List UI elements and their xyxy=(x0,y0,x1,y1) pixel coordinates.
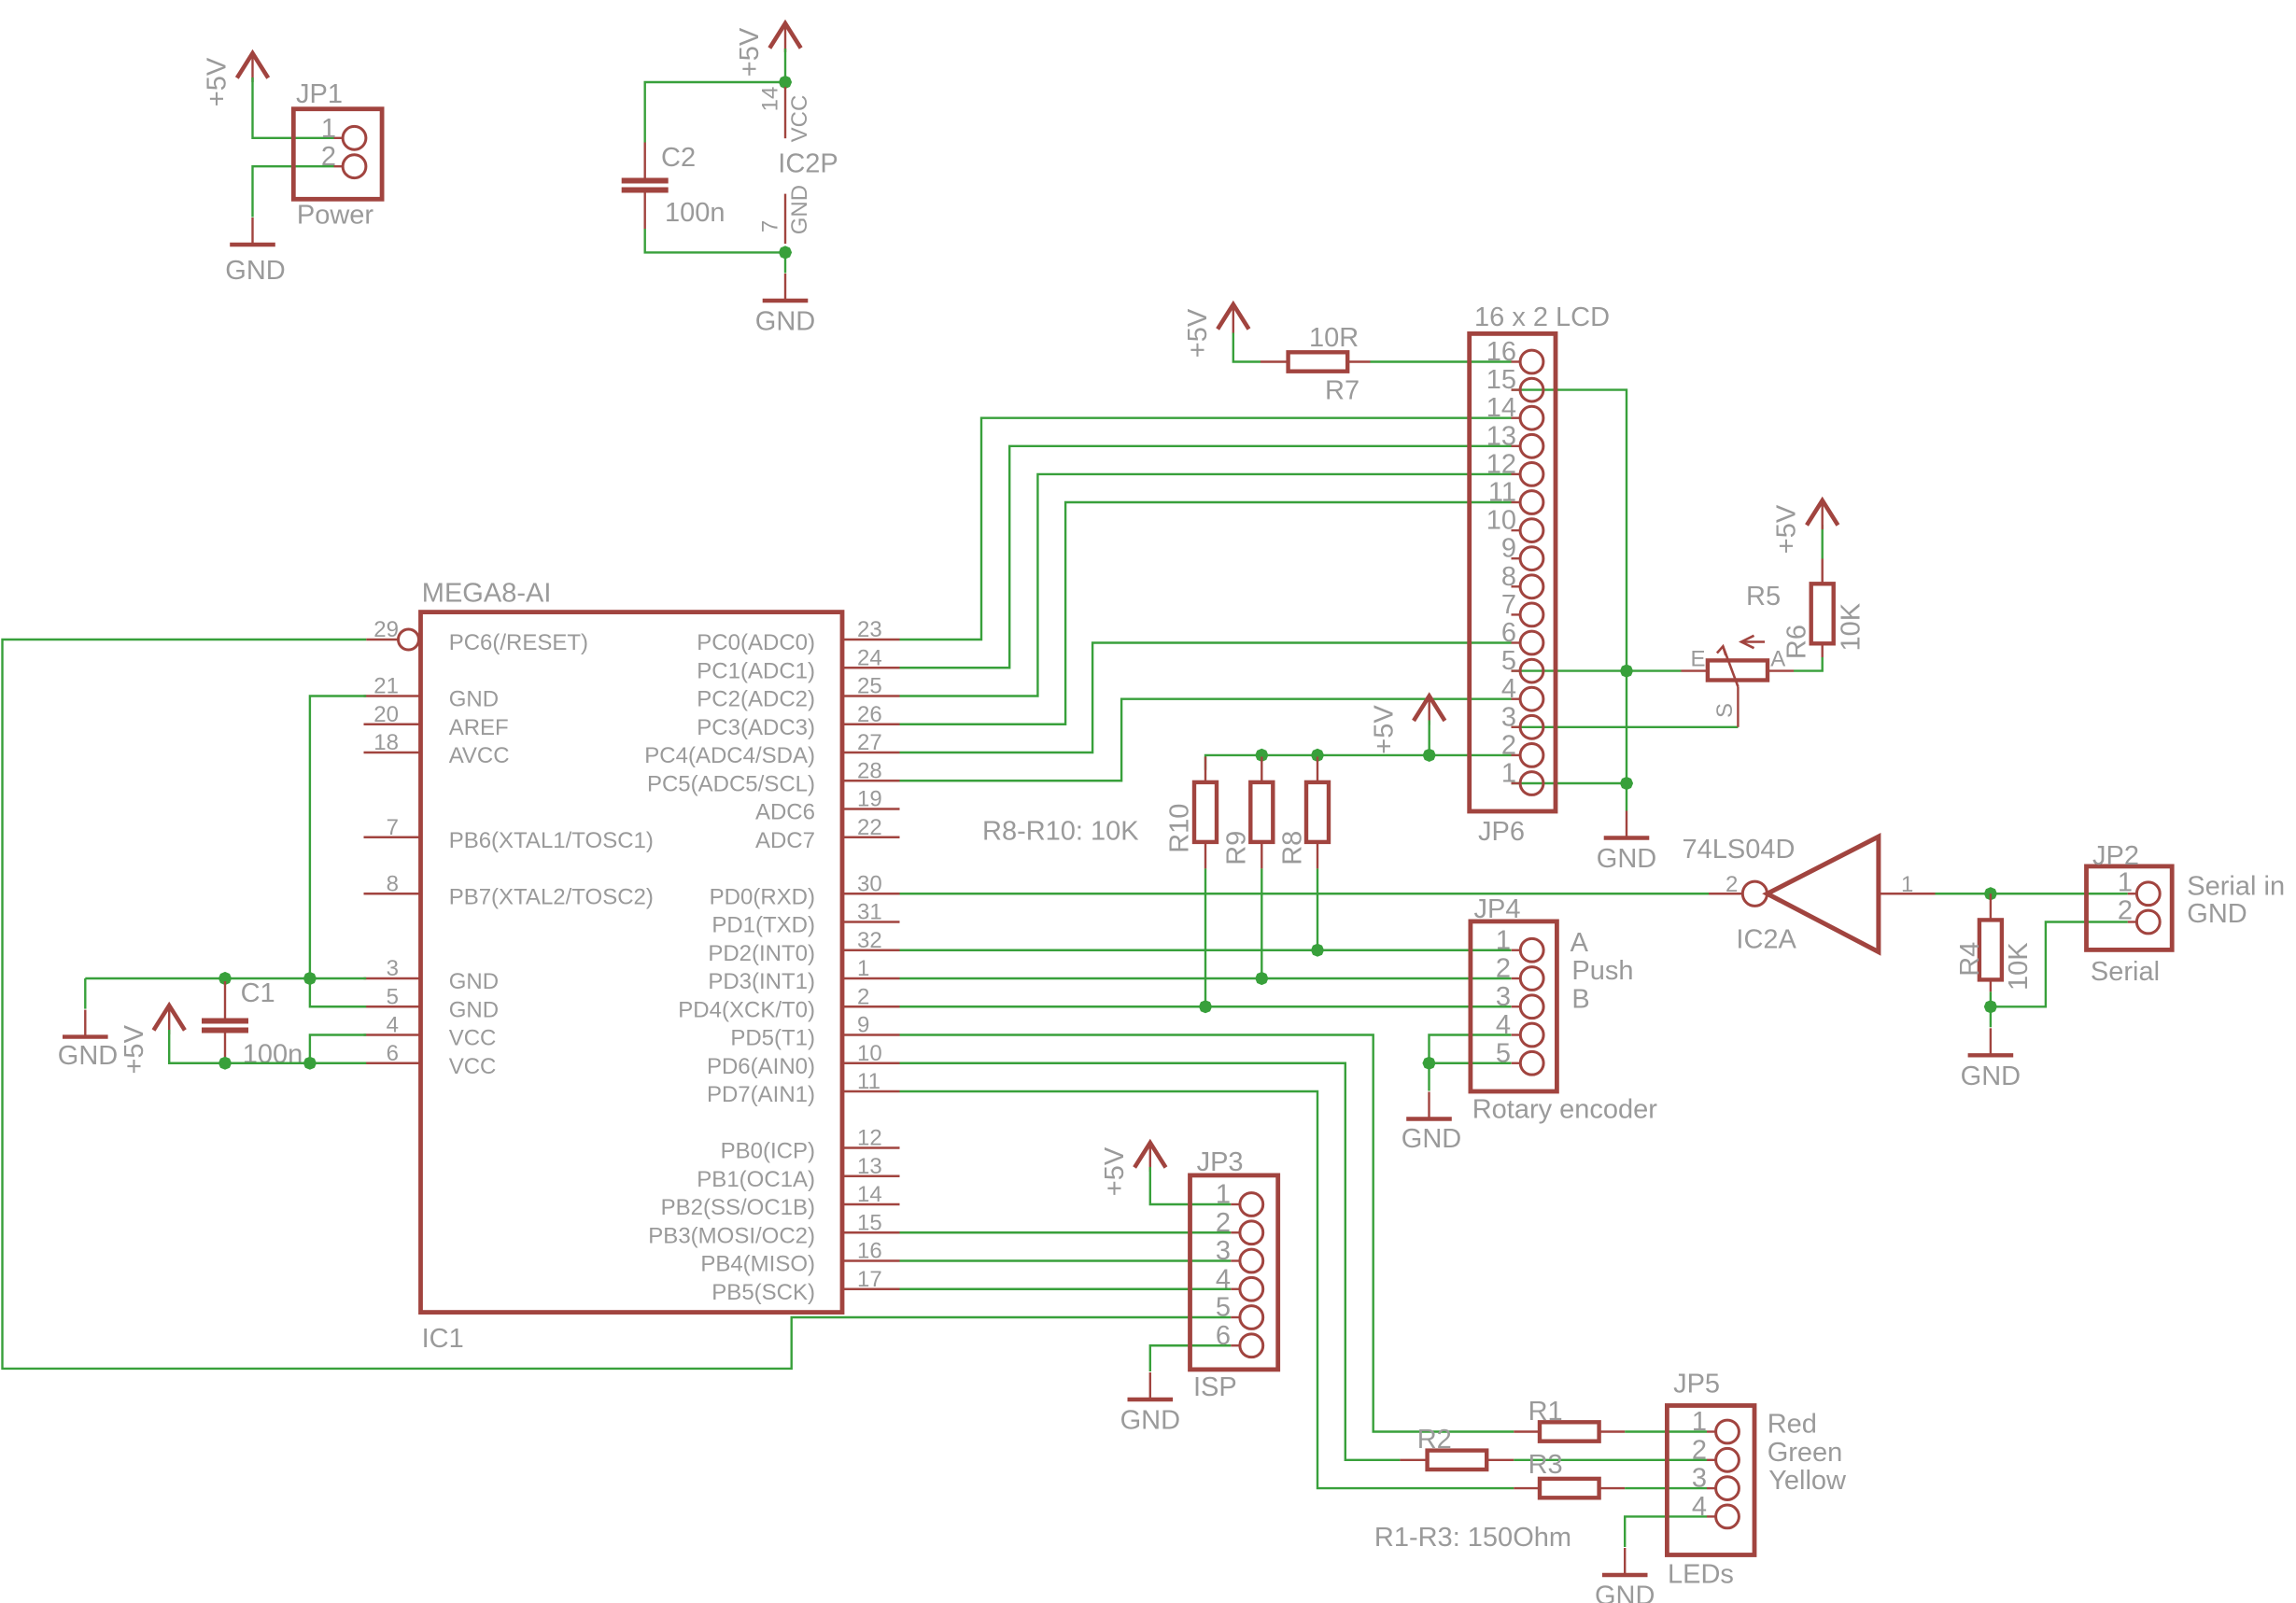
wire GND jog to pin 5 xyxy=(310,978,366,1006)
wire PD4 to JP4 pin 3 xyxy=(900,1005,1512,1007)
svg-text:16: 16 xyxy=(857,1239,882,1264)
svg-text:PC0(ADC0): PC0(ADC0) xyxy=(697,630,815,655)
wire JP6 pin 5 to R5 E xyxy=(1512,669,1682,671)
JP6 pin 8 xyxy=(1512,585,1521,587)
svg-text:5: 5 xyxy=(1496,1038,1511,1068)
svg-text:JP4: JP4 xyxy=(1474,894,1521,924)
JP3 pin 3 xyxy=(1231,1259,1240,1261)
wire PC0 to JP6 pin 14 xyxy=(900,418,1512,640)
inverter IC2A bubble xyxy=(1742,881,1767,906)
svg-text:22: 22 xyxy=(857,815,882,840)
wire JP6 pin 1 to GND rail xyxy=(1512,782,1627,784)
wire R6 to +5V xyxy=(1821,525,1823,559)
junction GND vertical xyxy=(303,972,317,985)
resistor R10 xyxy=(1194,782,1217,842)
junction R10 bottom xyxy=(1199,1000,1212,1013)
wire +5V to VCC row xyxy=(169,1030,366,1063)
wire R5 A to R6 xyxy=(1794,657,1823,671)
wire JP1 pin 2 to GND xyxy=(253,166,334,217)
svg-text:1: 1 xyxy=(1692,1407,1707,1437)
wire PB5 to JP3 pin 4 xyxy=(900,1288,1232,1290)
JP5 pin 3 xyxy=(1707,1487,1716,1489)
svg-text:GND: GND xyxy=(225,256,285,286)
svg-text:9: 9 xyxy=(1501,534,1516,564)
svg-text:Serial: Serial xyxy=(2091,957,2160,987)
IC1 pin 17 line xyxy=(844,1288,900,1290)
JP4 pin 5 xyxy=(1512,1062,1521,1064)
power flag +5V (R7) xyxy=(1218,304,1248,330)
wire PD0 to inverter output xyxy=(900,893,1710,894)
JP6 pin 1 xyxy=(1512,782,1521,784)
resistor R8 top lead xyxy=(1317,757,1318,782)
svg-text:10R: 10R xyxy=(1309,323,1359,353)
svg-text:R1: R1 xyxy=(1528,1397,1563,1427)
junction R4 top xyxy=(1984,887,1997,900)
svg-text:GND: GND xyxy=(449,969,499,994)
svg-text:5: 5 xyxy=(1216,1293,1231,1323)
resistor R6 top lead xyxy=(1821,559,1823,585)
JP4 pin 1 xyxy=(1512,949,1521,951)
JP4 pin 2 xyxy=(1512,977,1521,979)
wire PD6 to R2 xyxy=(900,1063,1401,1460)
svg-text:PC6(/RESET): PC6(/RESET) xyxy=(449,630,588,655)
svg-text:PD5(T1): PD5(T1) xyxy=(730,1026,815,1051)
svg-text:R9: R9 xyxy=(1222,831,1252,865)
svg-text:+5V: +5V xyxy=(203,57,232,106)
svg-text:PD7(AIN1): PD7(AIN1) xyxy=(707,1082,815,1107)
svg-text:4: 4 xyxy=(1216,1264,1231,1294)
svg-text:6: 6 xyxy=(1216,1321,1231,1351)
resistor R3 right lead xyxy=(1598,1487,1625,1489)
IC1 pin 6 line xyxy=(364,1062,421,1064)
svg-text:PC2(ADC2): PC2(ADC2) xyxy=(697,687,815,712)
JP3 pin 2 xyxy=(1231,1231,1240,1233)
wire R8 bottom xyxy=(1317,868,1318,949)
trimmer R5 adjust arrow xyxy=(1742,640,1765,643)
wire C1 bottom stub xyxy=(224,1059,226,1063)
IC1 pin 26 line xyxy=(844,724,900,725)
wire PC4 to JP6 pin 6 xyxy=(900,643,1512,753)
wire GND junction down xyxy=(784,252,786,273)
svg-text:R5: R5 xyxy=(1746,582,1781,612)
wire PD3 to JP4 pin 2 xyxy=(900,977,1512,979)
JP5 pin 4 xyxy=(1707,1515,1716,1517)
svg-text:GND: GND xyxy=(1402,1124,1461,1154)
svg-text:2: 2 xyxy=(1216,1208,1231,1238)
svg-text:20: 20 xyxy=(373,702,399,727)
svg-text:18: 18 xyxy=(373,730,399,755)
svg-text:AVCC: AVCC xyxy=(449,743,510,768)
JP6 pin 6 xyxy=(1512,641,1521,643)
capacitor C2 bottom lead xyxy=(644,193,646,230)
wire JP4 pin 4 to GND xyxy=(1430,1035,1512,1063)
IC1 pin 23 line xyxy=(844,639,900,640)
JP6 pin 11 xyxy=(1512,501,1521,503)
trimmer R5 wiper lead S xyxy=(1737,686,1739,726)
IC1 pin 3 line xyxy=(364,977,421,979)
resistor R1 xyxy=(1540,1422,1599,1441)
svg-text:R7: R7 xyxy=(1325,376,1359,406)
resistor R2 left lead xyxy=(1400,1459,1429,1461)
svg-text:1: 1 xyxy=(1901,872,1913,897)
svg-text:PB5(SCK): PB5(SCK) xyxy=(711,1280,815,1305)
svg-text:1: 1 xyxy=(2118,867,2133,897)
inverter IC2A triangle xyxy=(1768,837,1879,952)
IC2P VCC pin line xyxy=(784,87,786,138)
wire VCC net to C2 top xyxy=(645,82,785,143)
JP3 pin 6 xyxy=(1231,1344,1240,1346)
svg-text:JP5: JP5 xyxy=(1673,1370,1720,1399)
JP6 pin 14 xyxy=(1512,417,1521,419)
wire JP3 pin 6 to GND xyxy=(1150,1345,1232,1371)
svg-text:PB4(MISO): PB4(MISO) xyxy=(700,1252,815,1277)
wire R4 to GND xyxy=(1990,1006,1992,1027)
svg-text:7: 7 xyxy=(757,220,782,232)
trimmer R5 wiper arrow xyxy=(1723,646,1738,686)
IC1 pin 1 line xyxy=(844,977,900,979)
svg-text:Yellow: Yellow xyxy=(1768,1466,1847,1496)
wire pin21 GND down xyxy=(310,696,366,979)
IC1 pin 21 line xyxy=(364,695,421,696)
junction VCC vertical xyxy=(303,1057,317,1070)
connector JP2 outline xyxy=(2087,866,2173,950)
IC IC1 MEGA8-AI outline xyxy=(421,612,843,1313)
junction VCC pin 14 xyxy=(779,76,792,89)
svg-text:12: 12 xyxy=(857,1126,882,1151)
IC1 pin 25 line xyxy=(844,695,900,696)
svg-text:32: 32 xyxy=(857,928,882,953)
wire JP5 pin 4 to GND xyxy=(1625,1516,1707,1547)
svg-text:Red: Red xyxy=(1768,1410,1817,1440)
resistor R6 xyxy=(1811,584,1834,643)
svg-text:2: 2 xyxy=(321,142,336,172)
svg-text:24: 24 xyxy=(857,645,882,670)
resistor R1 right lead xyxy=(1598,1430,1625,1432)
svg-text:+5V: +5V xyxy=(735,27,765,77)
svg-text:C2: C2 xyxy=(661,143,696,173)
IC1 pin 4 line xyxy=(364,1034,421,1035)
JP1 pin 1 xyxy=(334,137,344,139)
svg-text:PC5(ADC5/SCL): PC5(ADC5/SCL) xyxy=(647,771,815,796)
JP5 pin 1 xyxy=(1707,1430,1716,1432)
JP6 pin 2 xyxy=(1512,754,1521,756)
wire JP2 pin 2 net xyxy=(1991,922,2128,1007)
IC1 pin 16 line xyxy=(844,1259,900,1261)
svg-text:E: E xyxy=(1690,647,1705,672)
svg-text:PD4(XCK/T0): PD4(XCK/T0) xyxy=(678,997,815,1022)
IC1 pin 20 line xyxy=(364,724,421,725)
svg-text:1: 1 xyxy=(321,114,336,144)
svg-text:PC3(ADC3): PC3(ADC3) xyxy=(697,715,815,740)
IC1 pin 27 line xyxy=(844,752,900,753)
svg-text:14: 14 xyxy=(1486,393,1516,423)
svg-text:5: 5 xyxy=(387,984,399,1009)
svg-text:ADC6: ADC6 xyxy=(755,800,815,825)
IC1 pin 12 line xyxy=(844,1146,900,1148)
junction R4 bottom xyxy=(1984,1000,1997,1013)
svg-text:1: 1 xyxy=(1496,925,1511,955)
resistor R7 xyxy=(1289,352,1348,371)
resistor R6 bottom lead xyxy=(1821,642,1823,657)
svg-text:Power: Power xyxy=(297,200,374,230)
connector JP6 outline xyxy=(1470,333,1556,811)
resistor R3 left lead xyxy=(1514,1487,1541,1489)
svg-text:PC1(ADC1): PC1(ADC1) xyxy=(697,658,815,683)
junction JP4 GND xyxy=(1422,1057,1435,1070)
svg-text:14: 14 xyxy=(857,1182,882,1207)
svg-text:29: 29 xyxy=(373,617,399,642)
JP2 pin 1 xyxy=(2128,893,2137,894)
svg-text:16: 16 xyxy=(1486,337,1516,367)
wire /RESET long net xyxy=(3,640,1232,1369)
ground (JP3) xyxy=(1149,1372,1151,1399)
wire +5V to R7 xyxy=(1233,333,1261,362)
svg-text:IC2P: IC2P xyxy=(778,149,838,179)
svg-text:1: 1 xyxy=(1216,1180,1231,1210)
svg-text:PB7(XTAL2/TOSC2): PB7(XTAL2/TOSC2) xyxy=(449,884,654,909)
junction C1 top xyxy=(218,972,232,985)
capacitor C2 xyxy=(622,178,669,184)
svg-text:16 x 2 LCD: 16 x 2 LCD xyxy=(1474,302,1610,332)
connector JP4 outline xyxy=(1471,921,1557,1091)
wire PC3 to JP6 pin 11 xyxy=(900,502,1512,724)
svg-text:8: 8 xyxy=(1501,562,1516,592)
power flag +5V (JP1) xyxy=(237,53,268,78)
svg-text:IC1: IC1 xyxy=(422,1324,464,1354)
power flag +5V (C1) xyxy=(154,1005,185,1031)
svg-text:PD6(AIN0): PD6(AIN0) xyxy=(707,1054,815,1079)
ground (JP6) xyxy=(1626,811,1627,838)
IC1 pin 30 line xyxy=(844,893,900,894)
JP2 pin 2 xyxy=(2128,921,2137,922)
IC1 pin 19 line xyxy=(844,808,900,809)
resistor R4 top lead xyxy=(1990,893,1992,921)
JP6 pin 10 xyxy=(1512,529,1521,531)
IC1 pin 8 line xyxy=(364,893,421,894)
svg-text:2: 2 xyxy=(1496,954,1511,984)
svg-text:15: 15 xyxy=(1486,365,1516,395)
svg-text:PD1(TXD): PD1(TXD) xyxy=(711,913,815,938)
svg-text:PB1(OC1A): PB1(OC1A) xyxy=(697,1167,815,1192)
svg-text:PD3(INT1): PD3(INT1) xyxy=(708,969,815,994)
svg-text:2: 2 xyxy=(2118,896,2133,926)
svg-text:3: 3 xyxy=(1496,982,1511,1012)
JP6 pin 4 xyxy=(1512,698,1521,700)
wire JP6 pin 15 to GND rail xyxy=(1512,390,1627,811)
svg-text:ISP: ISP xyxy=(1193,1372,1237,1402)
wire +5V to JP1 pin 1 xyxy=(253,77,334,138)
resistor R1 left lead xyxy=(1514,1430,1541,1432)
svg-text:4: 4 xyxy=(1501,674,1516,704)
svg-text:R6: R6 xyxy=(1782,625,1811,659)
svg-text:11: 11 xyxy=(857,1069,880,1094)
svg-text:30: 30 xyxy=(857,871,882,896)
JP3 pin 4 xyxy=(1231,1288,1240,1290)
wire PD2 to JP4 pin 1 xyxy=(900,949,1512,951)
capacitor C1 top lead xyxy=(224,981,226,1019)
svg-text:100n: 100n xyxy=(243,1040,303,1070)
wire GND symbol drop xyxy=(84,978,86,1009)
JP6 pin 7 xyxy=(1512,613,1521,615)
svg-text:C1: C1 xyxy=(241,978,275,1008)
trimmer R5 right lead xyxy=(1768,669,1794,671)
svg-text:R2: R2 xyxy=(1417,1425,1452,1455)
svg-text:ADC7: ADC7 xyxy=(755,828,815,853)
svg-text:15: 15 xyxy=(857,1210,882,1235)
svg-text:+5V: +5V xyxy=(1100,1146,1130,1196)
junction R8 bottom xyxy=(1311,944,1324,957)
svg-text:+5V: +5V xyxy=(120,1024,149,1074)
ground (IC2P) xyxy=(784,274,786,301)
svg-text:+5V: +5V xyxy=(1183,308,1213,358)
wire +5V to JP3 pin 1 xyxy=(1150,1167,1232,1204)
wire +5V stem to rail xyxy=(1428,721,1430,755)
svg-text:PB2(SS/OC1B): PB2(SS/OC1B) xyxy=(661,1195,815,1220)
svg-text:2: 2 xyxy=(1726,872,1738,897)
JP6 pin 9 xyxy=(1512,557,1521,559)
power flag +5V (IC2P) xyxy=(769,23,800,49)
svg-text:R10: R10 xyxy=(1165,804,1195,853)
resistor R3 xyxy=(1540,1479,1599,1498)
svg-text:10: 10 xyxy=(857,1041,882,1066)
svg-text:Push: Push xyxy=(1571,956,1633,986)
connector JP3 outline xyxy=(1190,1175,1278,1370)
svg-text:8: 8 xyxy=(387,871,399,896)
wire JP4 GND drop xyxy=(1428,1063,1430,1091)
svg-text:GND: GND xyxy=(58,1041,118,1071)
svg-text:GND: GND xyxy=(1961,1062,2021,1091)
wire C2 bottom to GND junction xyxy=(645,229,785,252)
resistor R10 top lead xyxy=(1204,757,1206,782)
svg-text:11: 11 xyxy=(1488,478,1516,508)
ground (JP1) xyxy=(251,218,253,245)
svg-text:19: 19 xyxy=(857,787,882,812)
svg-text:1: 1 xyxy=(1501,759,1516,789)
wire PC2 to JP6 pin 12 xyxy=(900,474,1512,696)
svg-text:31: 31 xyxy=(857,900,882,925)
svg-text:PB3(MOSI/OC2): PB3(MOSI/OC2) xyxy=(648,1223,815,1248)
svg-text:13: 13 xyxy=(857,1154,882,1179)
wire +5V to VCC junction xyxy=(784,49,786,80)
svg-text:VCC: VCC xyxy=(449,1026,497,1051)
IC1 pin 24 line xyxy=(844,667,900,668)
svg-text:JP2: JP2 xyxy=(2092,841,2139,871)
svg-text:1: 1 xyxy=(857,956,869,981)
svg-text:GND: GND xyxy=(1120,1406,1180,1436)
svg-text:+5V: +5V xyxy=(1772,504,1802,554)
svg-text:PC4(ADC4/SDA): PC4(ADC4/SDA) xyxy=(644,743,815,768)
resistor R7 left lead xyxy=(1261,360,1289,362)
IC1 pin 22 line xyxy=(844,837,900,838)
svg-text:PB0(ICP): PB0(ICP) xyxy=(721,1139,815,1164)
connector JP1 outline xyxy=(293,109,382,200)
svg-text:26: 26 xyxy=(857,702,882,727)
inverter IC2A input lead xyxy=(1879,893,1936,894)
svg-text:3: 3 xyxy=(387,956,399,981)
svg-text:3: 3 xyxy=(1216,1236,1231,1266)
IC1 pin 15 line xyxy=(844,1231,900,1233)
svg-text:GND: GND xyxy=(787,185,812,234)
svg-text:7: 7 xyxy=(1501,590,1516,620)
IC1 pin 11 line xyxy=(844,1090,900,1092)
svg-text:A: A xyxy=(1571,928,1589,958)
power flag +5V (JP6 pin 2) xyxy=(1414,696,1444,722)
svg-text:4: 4 xyxy=(1496,1010,1511,1040)
svg-text:JP3: JP3 xyxy=(1197,1147,1244,1177)
svg-text:IC2A: IC2A xyxy=(1736,925,1796,955)
svg-text:JP1: JP1 xyxy=(296,79,343,109)
junction C1 bottom xyxy=(218,1057,232,1070)
JP4 pin 3 xyxy=(1512,1005,1521,1007)
ground (R4) xyxy=(1990,1028,1992,1055)
IC1 pin 28 line xyxy=(844,780,900,781)
wire R10 bottom xyxy=(1204,868,1206,1006)
IC1 pin 14 line xyxy=(844,1203,900,1205)
JP6 pin 5 xyxy=(1512,669,1521,671)
svg-text:3: 3 xyxy=(1501,702,1516,732)
svg-text:7: 7 xyxy=(387,815,399,840)
resistor R9 xyxy=(1250,782,1273,842)
junction R9 bottom xyxy=(1255,972,1268,985)
resistor R9 top lead xyxy=(1261,757,1262,782)
svg-text:Serial in: Serial in xyxy=(2187,871,2285,901)
junction GND pin 7 xyxy=(779,246,792,259)
wire GND row to pin 3 xyxy=(85,977,366,979)
resistor R8 xyxy=(1306,782,1329,842)
svg-text:AREF: AREF xyxy=(449,715,509,740)
svg-text:R8-R10: 10K: R8-R10: 10K xyxy=(982,817,1139,847)
wire PC1 to JP6 pin 13 xyxy=(900,446,1512,668)
JP3 pin 1 xyxy=(1231,1203,1240,1205)
svg-text:2: 2 xyxy=(857,984,869,1009)
ground (JP4) xyxy=(1428,1092,1430,1119)
svg-text:100n: 100n xyxy=(665,198,725,228)
svg-text:3: 3 xyxy=(1692,1464,1707,1494)
wire R9 bottom xyxy=(1261,868,1262,978)
svg-text:R4: R4 xyxy=(1955,942,1985,977)
svg-text:27: 27 xyxy=(857,730,882,755)
JP1 pin 2 xyxy=(334,165,344,167)
resistor R2 right lead xyxy=(1486,1459,1514,1461)
JP3 pin 5 xyxy=(1231,1316,1240,1318)
svg-text:GND: GND xyxy=(1597,844,1656,874)
junction R8 top xyxy=(1311,749,1324,762)
ground (JP5) xyxy=(1624,1548,1626,1575)
svg-text:4: 4 xyxy=(1692,1492,1707,1522)
svg-text:LEDs: LEDs xyxy=(1668,1560,1734,1590)
IC1 pin 5 line xyxy=(364,1005,421,1007)
power flag +5V (R6) xyxy=(1807,500,1838,526)
wire JP6 pin 3 to R5 S xyxy=(1512,726,1739,728)
svg-text:GND: GND xyxy=(449,687,499,712)
svg-text:10: 10 xyxy=(1486,506,1516,536)
svg-text:R1-R3: 150Ohm: R1-R3: 150Ohm xyxy=(1374,1523,1571,1553)
svg-text:28: 28 xyxy=(857,758,882,783)
svg-text:JP6: JP6 xyxy=(1478,817,1525,847)
wire PC5 to JP6 pin 4 xyxy=(900,699,1512,781)
wire +5V rail to JP6 pin 2 xyxy=(1205,755,1512,770)
capacitor C2 top lead xyxy=(644,143,646,178)
svg-text:B: B xyxy=(1571,984,1589,1014)
wire R7 to JP6 pin 16 xyxy=(1371,360,1512,362)
JP5 pin 2 xyxy=(1707,1459,1716,1461)
svg-text:R8: R8 xyxy=(1278,831,1308,865)
IC2P GND pin line xyxy=(784,194,786,244)
JP6 pin 3 xyxy=(1512,726,1521,728)
resistor R10 bottom lead xyxy=(1204,842,1206,869)
IC1 pin 18 line xyxy=(364,752,421,753)
svg-text:13: 13 xyxy=(1486,421,1516,451)
